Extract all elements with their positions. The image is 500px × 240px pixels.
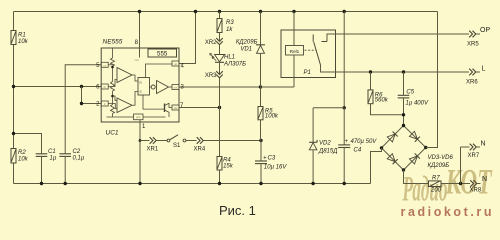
svg-text:gnd: gnd <box>136 115 141 119</box>
svg-text:S: S <box>140 90 142 94</box>
svg-text:КД209Б: КД209Б <box>428 163 450 169</box>
svg-text:R4: R4 <box>223 157 231 163</box>
svg-text:C3: C3 <box>268 156 276 162</box>
svg-text:Д815Д: Д815Д <box>318 149 338 155</box>
svg-text:АЛ307Б: АЛ307Б <box>223 61 246 67</box>
svg-text:Rel1: Rel1 <box>290 49 300 54</box>
svg-text:1µ 400V: 1µ 400V <box>406 100 429 106</box>
svg-text:XR7: XR7 <box>468 153 480 159</box>
svg-text:10k: 10k <box>18 157 29 163</box>
svg-text:КД209Б: КД209Б <box>236 40 258 46</box>
svg-text:10µ 16V: 10µ 16V <box>264 165 287 171</box>
svg-text:VD1: VD1 <box>240 46 252 52</box>
svg-text:P1: P1 <box>304 70 311 76</box>
svg-text:C4: C4 <box>354 147 362 153</box>
svg-text:XR6: XR6 <box>466 79 478 85</box>
svg-text:1k: 1k <box>226 27 233 33</box>
svg-text:XR4: XR4 <box>194 147 206 153</box>
svg-text:NE555: NE555 <box>103 39 123 46</box>
svg-text:S1: S1 <box>173 143 181 149</box>
svg-text:0,1µ: 0,1µ <box>73 155 85 161</box>
svg-text:rst: rst <box>174 62 177 66</box>
svg-text:15k: 15k <box>223 164 234 170</box>
svg-text:N: N <box>482 176 487 183</box>
svg-text:OP: OP <box>480 27 490 34</box>
svg-text:UC1: UC1 <box>106 129 119 136</box>
svg-text:200: 200 <box>430 187 442 193</box>
svg-text:R2: R2 <box>18 150 26 156</box>
svg-text:Рис. 1: Рис. 1 <box>219 203 256 218</box>
svg-text:N: N <box>481 140 486 147</box>
svg-text:10k: 10k <box>18 39 29 45</box>
svg-text:555: 555 <box>157 51 168 58</box>
svg-text:dis: dis <box>174 106 178 110</box>
svg-text:C5: C5 <box>406 89 414 95</box>
svg-text:radiokot.ru: radiokot.ru <box>401 205 492 219</box>
svg-text:XR8: XR8 <box>470 187 482 193</box>
svg-text:C1: C1 <box>48 149 56 155</box>
svg-text:1µ: 1µ <box>50 155 57 161</box>
svg-text:vcc: vcc <box>135 58 140 62</box>
svg-text:+: + <box>345 139 349 145</box>
svg-text:out: out <box>174 86 178 90</box>
svg-text:VD2: VD2 <box>319 141 331 147</box>
svg-text:R1: R1 <box>18 33 26 39</box>
svg-text:100k: 100k <box>265 114 279 120</box>
svg-text:XR2: XR2 <box>205 40 217 46</box>
svg-text:XR5: XR5 <box>467 42 479 48</box>
svg-text:+: + <box>263 156 267 162</box>
svg-text:XR1: XR1 <box>147 147 159 153</box>
svg-text:470µ 50V: 470µ 50V <box>351 139 378 145</box>
svg-text:VD3-VD6: VD3-VD6 <box>428 155 454 161</box>
svg-text:HL1: HL1 <box>224 54 235 60</box>
svg-text:R3: R3 <box>226 20 234 26</box>
svg-text:R7: R7 <box>432 176 440 182</box>
svg-text:XR3: XR3 <box>205 73 217 79</box>
svg-text:tr: tr <box>104 102 106 106</box>
svg-text:L: L <box>482 66 486 73</box>
svg-text:560k: 560k <box>375 98 389 104</box>
svg-text:C2: C2 <box>73 149 81 155</box>
